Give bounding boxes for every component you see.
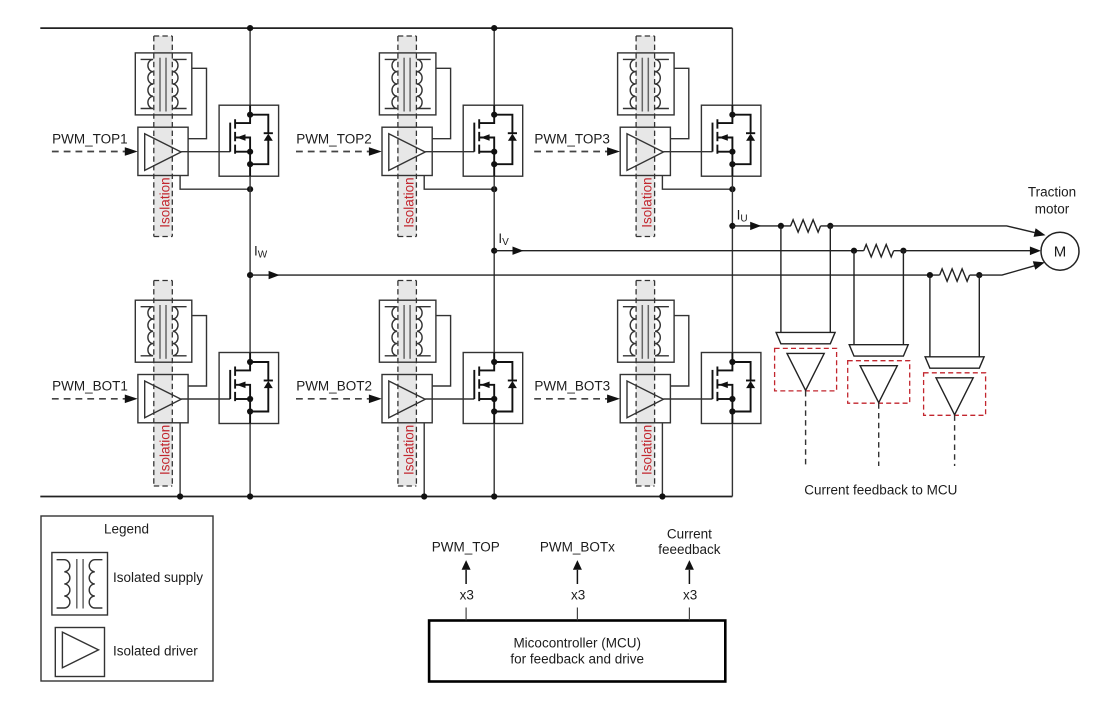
isolated driver U5 (leg2 low) [382, 375, 432, 423]
svg-text:x3: x3 [571, 587, 585, 602]
node V: leg2 phase junction [491, 248, 497, 254]
wire: T3 secondary to driver (leg3 high) [670, 68, 688, 138]
wire: phase W line to shunt RW [250, 274, 940, 276]
legend driver triangle [62, 632, 98, 668]
junction: U5 return on bottom rail [421, 493, 427, 499]
isolated driver U4 (leg1 low) [138, 375, 188, 423]
junction: U3 return on leg3 [729, 186, 735, 192]
legend transformer primary winding [57, 560, 70, 608]
junction: leg2 on top rail [491, 25, 497, 31]
MOSFET Q6 with body diode (leg3 low) [701, 353, 761, 424]
junction: leg1 on top rail [247, 25, 253, 31]
svg-text:Isolation: Isolation [640, 177, 655, 227]
svg-text:Isolation: Isolation [640, 425, 655, 475]
wire: U4 output to Q4 gate [181, 398, 230, 400]
svg-text:Isolation: Isolation [157, 177, 172, 227]
top DC bus rail [40, 27, 732, 29]
svg-text:Isolated driver: Isolated driver [113, 643, 198, 658]
isolation barrier band (phase W low side) [154, 281, 173, 487]
legend transformer core [76, 559, 78, 609]
bottom DC return rail [40, 496, 732, 498]
wire: leg3 source drop to bottom rail [731, 424, 733, 497]
motor input arrowhead (phase W) [1033, 261, 1045, 270]
svg-text:Isolation: Isolation [157, 425, 172, 475]
current-sense amplifier AU [775, 332, 837, 391]
wire: T5 secondary to driver (leg2 low) [432, 316, 450, 386]
isolated driver U3 (leg3 high) [620, 127, 670, 175]
wire: phase W from shunt to motor [970, 266, 1035, 275]
wire: phase V from shunt to motor [894, 250, 1031, 252]
svg-text:PWM_BOT3: PWM_BOT3 [534, 379, 610, 394]
isolation barrier band (phase U high side) [636, 36, 655, 237]
MOSFET Q5 with body diode (leg2 low) [463, 353, 523, 424]
svg-text:motor: motor [1035, 201, 1070, 216]
current-sense amplifier AV [848, 345, 910, 404]
phase U direction arrowhead [750, 222, 761, 230]
wire: U1 return to Q1 source node [180, 176, 250, 190]
tick: current feedback bus into MCU [688, 608, 690, 621]
junction: U4 return on bottom rail [177, 493, 183, 499]
wire: U5 return to bottom rail [423, 423, 425, 497]
isolated supply transformer T4 (leg1 low) [135, 300, 192, 362]
shunt resistor RU [778, 220, 834, 232]
wire: phase U from shunt to motor [821, 226, 1035, 233]
svg-text:Isolated supply: Isolated supply [113, 570, 203, 585]
svg-text:PWM_BOT1: PWM_BOT1 [52, 379, 128, 394]
isolation barrier band (phase U low side) [636, 281, 655, 487]
svg-text:PWM_TOP2: PWM_TOP2 [296, 131, 372, 146]
svg-text:PWM_TOP1: PWM_TOP1 [52, 131, 128, 146]
svg-text:for feedback and drive: for feedback and drive [510, 651, 644, 666]
wire: leg3 midpoint between Q3 and Q6 [731, 176, 733, 352]
MOSFET Q4 with body diode (leg1 low) [219, 353, 279, 424]
wire: U2 output to Q2 gate [425, 151, 474, 153]
wire: RW left tap down to amp AW [929, 275, 931, 357]
junction: U2 return on leg2 [491, 186, 497, 192]
junction: U1 return on leg1 [247, 186, 253, 192]
motor input arrowhead (phase V) [1030, 247, 1041, 256]
wire: U6 output to Q6 gate [663, 398, 712, 400]
phase W direction arrowhead [269, 271, 280, 279]
traction motor circle M [1041, 232, 1079, 270]
svg-text:Isolation: Isolation [402, 177, 417, 227]
PWM_TOP1 dashed input arrow [52, 147, 138, 156]
wire: RW right tap down to amp AW [978, 275, 980, 357]
wire: leg1 source drop to bottom rail [249, 424, 251, 497]
svg-text:Current feedback to MCU: Current feedback to MCU [804, 483, 957, 498]
legend isolated driver symbol box [55, 628, 104, 677]
dashed output of AU to MCU [805, 391, 807, 466]
wire: leg1 drain riser from top rail [249, 28, 251, 105]
isolated driver U1 (leg1 high) [138, 127, 188, 175]
wire: T4 secondary to driver (leg1 low) [188, 316, 206, 386]
dashed output of AV to MCU [878, 403, 880, 466]
svg-text:PWM_TOP: PWM_TOP [432, 539, 500, 554]
isolated supply transformer T6 (leg3 low) [618, 300, 675, 362]
svg-text:Current: Current [667, 526, 712, 541]
node W: leg1 phase junction [247, 272, 253, 278]
legend outer box [41, 516, 213, 681]
MOSFET Q2 with body diode (leg2 high) [463, 105, 523, 176]
isolated supply transformer T3 (leg3 high) [618, 53, 675, 115]
wire: leg1 midpoint between Q1 and Q4 [249, 176, 251, 352]
phase V direction arrowhead [513, 247, 524, 255]
PWM_BOTx arrow from MCU [573, 560, 582, 584]
junction: leg1 on bottom rail [247, 493, 253, 499]
MOSFET Q3 with body diode (leg3 high) [701, 105, 761, 176]
PWM_TOP2 dashed input arrow [296, 147, 382, 156]
isolated driver U2 (leg2 high) [382, 127, 432, 175]
svg-text:PWM_BOTx: PWM_BOTx [540, 539, 615, 554]
wire: U3 return to Q3 source node [662, 176, 732, 190]
wire: phase V line to shunt RV [494, 250, 864, 252]
wire: U1 output to Q1 gate [181, 151, 230, 153]
wire: U2 return to Q2 source node [424, 176, 494, 190]
microcontroller MCU box [429, 621, 725, 682]
svg-text:feeedback: feeedback [658, 542, 721, 557]
svg-text:M: M [1054, 243, 1067, 260]
node U: leg3 phase junction [729, 223, 735, 229]
wire: RU right tap down to amp AU [829, 226, 831, 333]
svg-text:Traction: Traction [1028, 184, 1076, 199]
isolated supply transformer T1 (leg1 high) [135, 53, 192, 115]
wire: U4 return to bottom rail [179, 423, 181, 497]
PWM_BOT3 dashed input arrow [534, 395, 620, 404]
wire: U5 output to Q5 gate [425, 398, 474, 400]
wire: leg2 source drop to bottom rail [493, 424, 495, 497]
svg-text:PWM_TOP3: PWM_TOP3 [534, 131, 610, 146]
wire: RV right tap down to amp AV [902, 251, 904, 345]
svg-text:x3: x3 [683, 587, 697, 602]
wire: leg2 midpoint between Q2 and Q5 [493, 176, 495, 352]
isolation barrier band (phase V low side) [398, 281, 417, 487]
svg-text:PWM_BOT2: PWM_BOT2 [296, 379, 372, 394]
wire: phase U line to shunt RU [732, 225, 791, 227]
motor input arrowhead (phase U) [1034, 228, 1046, 237]
current-sense amplifier AW [924, 357, 986, 416]
wire: T2 secondary to driver (leg2 high) [432, 68, 450, 138]
svg-text:Legend: Legend [104, 521, 149, 536]
shunt resistor RW [927, 269, 983, 281]
wire: leg3 drain riser from top rail [731, 28, 733, 105]
isolated supply transformer T2 (leg2 high) [379, 53, 436, 115]
wire: leg2 drain riser from top rail [493, 28, 495, 105]
PWM_BOT2 dashed input arrow [296, 395, 382, 404]
wire: T6 secondary to driver (leg3 low) [670, 316, 688, 386]
svg-text:Micocontroller (MCU): Micocontroller (MCU) [513, 636, 641, 651]
junction: leg2 on bottom rail [491, 493, 497, 499]
legend transformer secondary winding [89, 560, 102, 608]
wire: U6 return to bottom rail [661, 423, 663, 497]
wire: RV left tap down to amp AV [853, 251, 855, 345]
PWM_TOP3 dashed input arrow [534, 147, 620, 156]
isolation barrier band (phase W high side) [154, 36, 173, 237]
shunt resistor RV [851, 245, 907, 257]
wire: T1 secondary to driver (leg1 high) [188, 68, 206, 138]
isolated driver U6 (leg3 low) [620, 375, 670, 423]
MOSFET Q1 with body diode (leg1 high) [219, 105, 279, 176]
tick: PWM_TOP bus into MCU [465, 608, 467, 621]
svg-text:Isolation: Isolation [402, 425, 417, 475]
isolated supply transformer T5 (leg2 low) [379, 300, 436, 362]
dashed output of AW to MCU [954, 415, 956, 466]
junction: U6 return on bottom rail [659, 493, 665, 499]
PWM_BOT1 dashed input arrow [52, 395, 138, 404]
Current feedback arrow from MCU [685, 560, 694, 584]
tick: PWM_BOTx bus into MCU [576, 608, 578, 621]
PWM_TOP arrow from MCU [462, 560, 471, 584]
wire: RU left tap down to amp AU [780, 226, 782, 333]
svg-text:x3: x3 [460, 587, 474, 602]
isolation barrier band (phase V high side) [398, 36, 417, 237]
legend isolated supply symbol box [52, 553, 108, 616]
wire: U3 output to Q3 gate [663, 151, 712, 153]
